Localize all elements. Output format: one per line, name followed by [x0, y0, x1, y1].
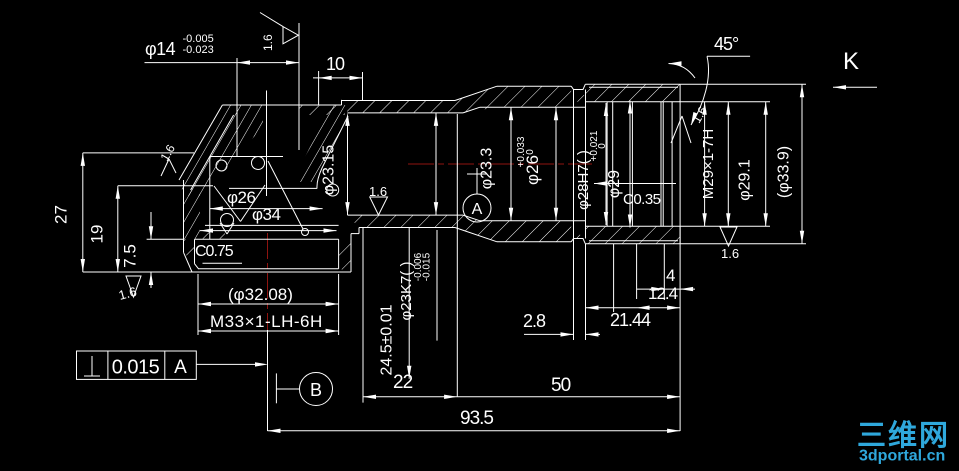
svg-text:B: B — [310, 380, 322, 400]
svg-text:-0.015: -0.015 — [422, 252, 433, 281]
svg-text:0: 0 — [597, 143, 608, 149]
svg-text:93.5: 93.5 — [460, 408, 493, 429]
svg-text:12.4: 12.4 — [648, 284, 678, 303]
svg-text:C0.35: C0.35 — [623, 191, 661, 208]
svg-text:0.015: 0.015 — [112, 357, 160, 379]
svg-text:K: K — [843, 48, 859, 75]
svg-text:φ34: φ34 — [252, 205, 280, 224]
svg-text:M33×1-LH-6H: M33×1-LH-6H — [210, 312, 323, 331]
svg-text:φ23.15: φ23.15 — [321, 145, 338, 196]
svg-text:7.5: 7.5 — [121, 244, 140, 268]
svg-text:(φ33.9): (φ33.9) — [776, 146, 793, 198]
svg-text:φ14: φ14 — [145, 39, 176, 59]
svg-text:M29×1-7H: M29×1-7H — [700, 129, 717, 199]
svg-text:27: 27 — [52, 205, 71, 224]
svg-text:φ23.3: φ23.3 — [479, 148, 496, 190]
svg-text:45°: 45° — [714, 34, 739, 54]
svg-text:-0.023: -0.023 — [183, 44, 214, 56]
svg-text:1.6: 1.6 — [721, 246, 739, 261]
svg-text:50: 50 — [551, 375, 571, 396]
svg-text:A: A — [472, 201, 483, 218]
svg-text:22: 22 — [393, 372, 413, 393]
svg-text:A: A — [174, 357, 187, 378]
svg-text:C0.75: C0.75 — [195, 243, 234, 260]
svg-text:24.5±0.01: 24.5±0.01 — [379, 304, 396, 375]
svg-text:10: 10 — [326, 54, 345, 74]
svg-text:21.44: 21.44 — [610, 310, 651, 330]
svg-text:1.6: 1.6 — [261, 34, 275, 51]
svg-text:1.6: 1.6 — [369, 184, 387, 199]
svg-text:(φ32.08): (φ32.08) — [228, 285, 293, 304]
svg-text:4: 4 — [666, 266, 675, 285]
svg-text:3dportal.cn: 3dportal.cn — [859, 448, 945, 465]
svg-text:0: 0 — [525, 149, 536, 155]
svg-text:φ29.1: φ29.1 — [737, 159, 754, 201]
svg-text:19: 19 — [88, 225, 107, 244]
svg-text:2.8: 2.8 — [523, 311, 546, 331]
